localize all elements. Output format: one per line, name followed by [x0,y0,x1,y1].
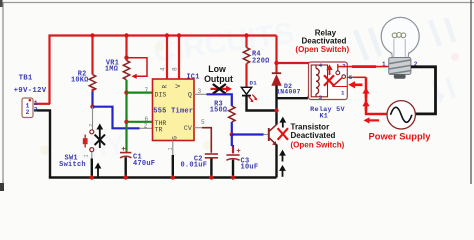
svg-text:CV: CV [184,125,192,132]
terminal block TB1 [22,98,33,118]
wire collector node to relay pin 3 [277,97,309,99]
potentiometer VR1 [123,58,147,80]
svg-text:+: + [121,144,126,153]
junction green/THR [124,120,128,124]
svg-text:K1: K1 [319,112,328,120]
wire base node to transistor base [232,133,264,135]
svg-text:4: 4 [159,67,166,71]
transistor Q1 [269,124,277,145]
low output X arrow [211,84,233,94]
relay X deactivated mark [324,75,334,86]
transistor current arrow above [279,117,286,128]
capacitor C1 [120,144,131,177]
svg-text:1: 1 [382,61,386,68]
lamp LA1 bulb [381,17,419,78]
watermark [40,17,459,166]
svg-text:IC1: IC1 [186,74,199,82]
svg-text:(Open Switch): (Open Switch) [295,45,349,54]
junction C2/ground [209,175,213,179]
wire D1 to collector node [247,97,277,111]
svg-text:555 Timer: 555 Timer [153,108,193,116]
wire stub relay pin5 [347,76,353,78]
wire SW1 to ground rail [91,159,93,178]
svg-text:V: V [175,84,182,88]
wire VCC top rail [50,36,277,105]
wire Q output to R3 [207,94,232,106]
wire Q pin3 stub [194,93,207,95]
junction rail/VR1 [124,33,128,37]
wire D2 anode to collector [275,85,277,124]
wire green to DIS pin7 [127,91,153,93]
svg-text:10uF: 10uF [241,164,259,172]
svg-text:2: 2 [144,123,148,130]
junction base node/C3 [230,132,234,136]
svg-text:Power Supply: Power Supply [369,130,432,141]
junction IC ground/rail [171,175,175,179]
svg-text:TR: TR [155,127,163,134]
wire stub transistor base [264,134,269,136]
wire rail to R2 [91,36,93,75]
junction rail/R2 [90,33,94,37]
svg-text:1MΩ: 1MΩ [105,66,118,74]
LED D1 [241,87,257,102]
wire TB1 pin2 to ground rail [34,110,50,177]
diode D2 1N4007 [272,73,281,85]
svg-text:2: 2 [89,124,95,127]
svg-text:1: 1 [84,154,90,157]
wire lamp to power supply (black) [411,67,436,114]
resistor R3 [229,106,235,122]
svg-text:3: 3 [319,94,323,101]
transistor current arrow below2 [279,165,286,177]
svg-text:3: 3 [197,88,201,95]
svg-text:+9V-12V: +9V-12V [14,87,47,95]
svg-text:7: 7 [144,87,148,94]
svg-text:Q: Q [188,92,192,99]
wire rail to VR1 [125,36,127,61]
junction VR1 wiper tap [124,56,128,60]
svg-text:5: 5 [201,119,205,126]
junction D1 tap [274,108,278,112]
wire to relay coil pin 4 [277,62,319,64]
svg-text:R: R [162,85,169,89]
svg-text:Deactivated: Deactivated [291,131,336,140]
svg-text:DIS: DIS [155,92,167,99]
relay coil current arrow [326,64,332,75]
IC ground pin 1 stub [172,141,174,156]
svg-text:10KΩ: 10KΩ [71,77,89,85]
svg-text:TB1: TB1 [19,74,33,82]
relay K1 [309,62,348,100]
junction D2/relay coil [274,61,278,65]
wire rail corner down to D2 [275,36,277,73]
frame border [0,0,474,184]
current arrow into pin5 [348,81,362,88]
wire TB1 pin1 to rail [34,103,50,105]
wire IC ground to rail [172,155,174,178]
ground current arrow [95,163,102,177]
riser current arrow 1 [362,87,369,97]
wire emitter to ground rail [275,145,277,178]
resistor R4 [243,48,249,64]
wire rail to R4 [245,36,247,48]
wire VR1 to C1 (green net) [125,80,127,151]
transistor X deactivated mark [278,128,288,140]
wire rail to pin 4 [166,36,168,80]
wire stub TR pin 2 [140,127,153,129]
svg-text:D1: D1 [250,80,258,87]
junction SW1/ground [90,175,94,179]
switch SW1 [83,107,94,159]
svg-text:G: G [171,136,178,140]
svg-text:8: 8 [172,67,179,71]
svg-text:1: 1 [168,147,174,150]
frame corner mark top-left [0,0,3,7]
junction rail/pin4 [165,33,169,37]
svg-text:2: 2 [34,106,38,113]
svg-text:Low: Low [208,64,226,74]
capacitor C3 [226,146,241,177]
wire highlighted segment [352,65,376,68]
wire ground bottom rail [49,176,277,178]
SW1 press arrow with X [95,124,105,149]
junction C1/ground [124,175,128,179]
resistor R2 [89,75,95,92]
svg-text:4: 4 [319,62,323,69]
svg-text:220Ω: 220Ω [252,57,270,65]
wire trigger node to TR pin2 [93,107,140,129]
svg-text:2: 2 [26,109,30,116]
svg-text:1: 1 [341,89,345,96]
svg-text:Switch: Switch [59,161,86,169]
svg-text:1N4007: 1N4007 [276,89,301,96]
wire CV to C2 [202,128,211,153]
wire rail to pin 8 [178,36,180,80]
svg-text:(Open Switch): (Open Switch) [291,140,345,149]
junction trigger node [90,105,94,109]
capacitor C2 [205,154,218,178]
wire relay pole to lamp [338,66,389,68]
op-amp, er, timer IC1 555 [153,79,195,141]
svg-text:0.01uF: 0.01uF [180,162,207,170]
junction C3/ground [231,175,235,179]
power supply AC source [387,101,415,129]
wire pin5 to riser [353,76,366,78]
wire C3 tap [232,135,233,153]
wire R3 to base node [231,122,233,135]
svg-text:470uF: 470uF [133,160,155,168]
wire relay pin3 jog [308,95,319,99]
junction rail/pin8 [177,33,181,37]
power supply return arrow [364,117,380,123]
svg-text:+: + [236,146,241,155]
frame corner mark [0,183,4,191]
riser current arrow 2 [362,100,369,110]
junction rail/R4 [244,33,248,37]
wire R2 to trigger node [91,92,93,108]
wire green to THR pin6 [127,121,153,123]
wire R4 to D1 [245,64,247,88]
svg-text:Output: Output [204,74,233,84]
wire CV pin5 stub [194,127,202,129]
wire power supply riser [366,77,388,114]
transistor current arrow below1 [279,150,286,162]
junction green/DIS [124,90,128,94]
svg-text:150Ω: 150Ω [210,107,228,115]
